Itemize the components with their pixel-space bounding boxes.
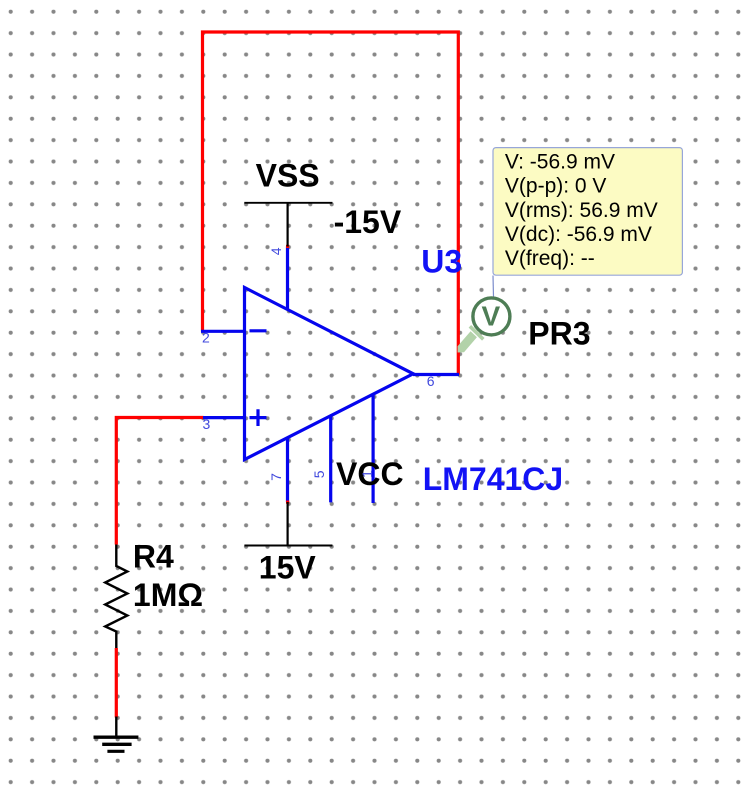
svg-text:15V: 15V: [259, 549, 317, 585]
svg-text:7: 7: [268, 473, 284, 481]
svg-text:1MΩ: 1MΩ: [133, 577, 203, 613]
probe measurement tooltip box: [493, 148, 682, 276]
svg-text:5: 5: [311, 470, 327, 478]
wire resistor bottom to ground: [115, 648, 118, 718]
svg-text:V(rms): 56.9 mV: V(rms): 56.9 mV: [505, 199, 658, 222]
pin 5 lead: [329, 416, 332, 503]
svg-text:V(freq): --: V(freq): --: [505, 247, 595, 270]
svg-text:PR3: PR3: [528, 316, 590, 352]
junction pin 7 to VCC: [286, 501, 289, 504]
probe leader line: [492, 276, 495, 298]
svg-text:4: 4: [268, 247, 284, 255]
pin number 7: [268, 473, 284, 481]
op-amp minus input symbol: [250, 329, 267, 332]
resistor R4 body: [105, 545, 127, 649]
pin 1 lead: [372, 394, 375, 503]
svg-text:-15V: -15V: [334, 204, 402, 240]
power symbol VCC bar: [244, 545, 332, 547]
pin 4 lead: [286, 247, 289, 310]
ground bar 3: [107, 750, 124, 753]
op-amp plus input symbol: [250, 409, 267, 426]
pin 6 output lead: [413, 373, 459, 376]
probe PR3 circle: [473, 298, 510, 335]
junction pin 4 to VSS: [286, 245, 289, 248]
svg-text:V: V: [482, 301, 501, 332]
svg-text:LM741CJ: LM741CJ: [423, 461, 564, 497]
power symbol VSS stem: [287, 203, 289, 247]
pin 7 lead: [286, 438, 289, 502]
op-amp U1 triangle body: [245, 288, 414, 460]
probe PR3 handle collar: [470, 326, 483, 339]
wire pin 3 lead: [203, 416, 245, 419]
wire feedback loop (output to inverting input): [203, 32, 459, 375]
svg-text:V(p-p): 0 V: V(p-p): 0 V: [505, 175, 607, 198]
svg-text:V(dc): -56.9 mV: V(dc): -56.9 mV: [505, 223, 652, 246]
power symbol VSS bar: [244, 202, 332, 204]
pin number 4: [268, 247, 284, 255]
pin number 5: [311, 470, 327, 478]
probe PR3 handle wedge: [458, 331, 477, 352]
svg-text:VSS: VSS: [256, 157, 320, 193]
svg-text:1: 1: [359, 470, 375, 478]
pin number 1: [359, 470, 375, 478]
svg-text:U3: U3: [421, 244, 462, 280]
wire input net (to non-inverting input): [116, 418, 203, 545]
ground stem: [115, 717, 117, 737]
svg-text:3: 3: [203, 416, 211, 432]
ground bar 1: [94, 736, 139, 739]
svg-text:2: 2: [202, 330, 210, 346]
svg-text:6: 6: [427, 373, 435, 389]
ground bar 2: [102, 743, 131, 746]
svg-text:V: -56.9 mV: V: -56.9 mV: [505, 150, 615, 173]
power symbol VCC stem: [287, 502, 289, 546]
svg-text:R4: R4: [133, 539, 174, 575]
wire pin 2 lead: [201, 330, 245, 333]
